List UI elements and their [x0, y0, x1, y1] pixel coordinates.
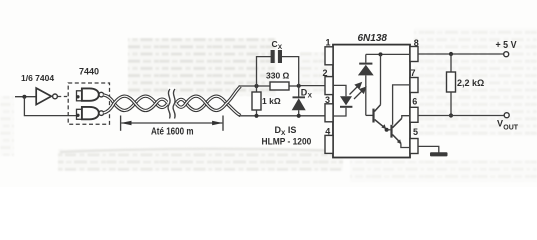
pin 5 stub: [410, 139, 418, 154]
NAND gate G2 (7440): [76, 107, 103, 119]
dashed box around 7440 gates: [68, 83, 109, 124]
NAND gate G1 (7440): [76, 88, 103, 100]
cable break mark left: [168, 89, 170, 119]
svg-text:330 Ω: 330 Ω: [266, 71, 290, 81]
internal photodiode: [358, 54, 374, 115]
svg-text:X: X: [308, 92, 313, 99]
faint scan noise patches (decorative): [0, 28, 537, 182]
inverter U1 (1/6 7404): [36, 88, 51, 105]
pin 1 stub: [325, 47, 333, 65]
wire: internal VCC rail from photodiode to pin 8: [366, 53, 410, 55]
cable break gap: [168, 87, 176, 119]
node: 2.2k bottom junction: [449, 113, 453, 117]
svg-text:V: V: [497, 119, 503, 129]
transistor Q2: [390, 118, 401, 144]
wire: pin 5 to ground: [418, 146, 439, 152]
svg-text:3: 3: [325, 95, 330, 105]
wire: junction to Q2 base: [387, 129, 391, 131]
pin 7 stub: [410, 78, 418, 93]
terminal +5V: [504, 52, 509, 57]
svg-text:2,2 kΩ: 2,2 kΩ: [457, 78, 484, 88]
node B junction dot: [297, 84, 301, 88]
dimension tick left: [120, 116, 122, 131]
light arrow 2: [354, 87, 366, 99]
IC 6N138 body: [333, 45, 410, 158]
pin 4 stub: [325, 135, 333, 153]
node: 2.2k top junction: [449, 52, 453, 56]
svg-text:6N138: 6N138: [358, 33, 388, 44]
svg-text:1: 1: [326, 37, 331, 47]
svg-text:7440: 7440: [79, 67, 99, 77]
svg-text:8: 8: [414, 38, 419, 48]
cable break mark right: [173, 89, 175, 119]
capacitor CX plates: [271, 50, 275, 63]
node: 1k bottom junction: [254, 114, 258, 118]
pin 2 stub: [325, 77, 333, 95]
svg-text:X: X: [278, 44, 283, 51]
wire: node B to IC pin 2: [299, 85, 325, 87]
dimension tick right: [222, 116, 224, 131]
diode DX (protection): [292, 86, 306, 116]
internal LED of optocoupler: [340, 96, 352, 108]
inverter output bubble: [53, 94, 58, 99]
svg-text:5: 5: [413, 127, 418, 137]
light arrow 1: [350, 83, 362, 95]
pin 6 stub: [410, 107, 418, 122]
svg-text:4: 4: [325, 127, 330, 137]
wire: inverter output dashes to 7440 box: [58, 96, 68, 98]
node: rail junction dot: [379, 52, 383, 56]
transistor Q1: [366, 105, 387, 130]
wire: LED cathode to pin 3: [333, 108, 346, 116]
svg-text:OUT: OUT: [503, 124, 519, 131]
svg-text:+ 5 V: + 5 V: [496, 40, 517, 51]
node A junction dot: [254, 84, 258, 88]
wire: pin 7 to Q2 base: [393, 85, 410, 125]
wire: +5V rail from pin 8: [418, 53, 504, 55]
terminal VOUT: [504, 113, 509, 118]
twisted pair strand B: [103, 86, 240, 113]
svg-text:Até 1600 m: Até 1600 m: [151, 126, 194, 137]
svg-text:6: 6: [412, 97, 417, 107]
wire: branch down to lower NAND input: [24, 97, 76, 116]
resistor 1 kohm: [252, 86, 261, 116]
wire: VOUT line from pin 6: [418, 115, 504, 117]
pin 8 stub: [410, 47, 418, 62]
svg-text:1 kΩ: 1 kΩ: [262, 96, 281, 106]
dimension arrowhead left: [121, 121, 132, 126]
wire: Q2 emitter to pin 5: [401, 143, 410, 147]
node: Q1 emitter / Q2 base junction: [385, 128, 389, 132]
svg-text:HLMP - 1200: HLMP - 1200: [262, 137, 312, 147]
wire: Q1 collector riser: [380, 54, 382, 104]
svg-text:7: 7: [411, 68, 416, 78]
wire: pin 2 to internal LED anode: [333, 85, 346, 96]
dimension arrowhead right: [212, 121, 223, 126]
wire: top line from cable to pin 2: [239, 85, 271, 87]
dimension line Até 1600 m: [121, 122, 222, 124]
wire: Q2 collector to pin 6: [402, 116, 410, 119]
svg-text:2: 2: [323, 68, 328, 78]
ground: [430, 152, 448, 156]
capacitor CX branch wires: [257, 57, 272, 86]
wire: input line to inverter: [15, 96, 36, 98]
resistor 2.2 kohm: [447, 54, 456, 116]
resistor 330 ohm (in top line): [270, 82, 289, 90]
wire: bottom line from cable to pin 3: [239, 115, 326, 117]
pin 3 stub: [325, 104, 333, 122]
twisted pair strand A: [103, 95, 240, 116]
node: input junction: [22, 95, 26, 99]
svg-text:1/6 7404: 1/6 7404: [21, 73, 54, 83]
node: DX bottom junction: [297, 114, 301, 118]
